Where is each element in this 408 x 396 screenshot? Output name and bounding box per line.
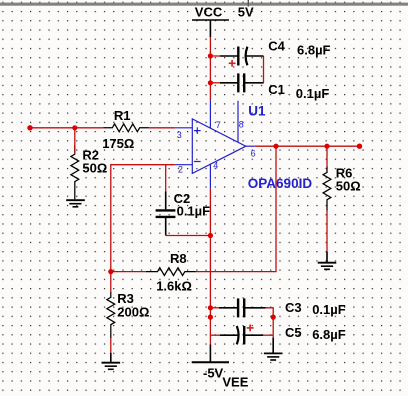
svg-text:0.1µF: 0.1µF bbox=[312, 302, 346, 317]
svg-text:1.6kΩ: 1.6kΩ bbox=[156, 278, 192, 293]
capacitor C4 (polarized 6.8uF) bbox=[220, 47, 264, 66]
svg-text:5V: 5V bbox=[238, 4, 254, 19]
svg-text:200Ω: 200Ω bbox=[117, 305, 149, 320]
lead ground stub below C3/C5 node bbox=[272, 338, 274, 354]
junction C2/pin4 bbox=[208, 233, 213, 238]
wire C4 left lead (red part) bbox=[210, 55, 220, 57]
svg-text:6: 6 bbox=[251, 149, 256, 159]
wire C3 left red bbox=[210, 307, 219, 309]
junction pin4 wire joint bbox=[208, 315, 213, 320]
svg-text:50Ω: 50Ω bbox=[336, 179, 361, 194]
top window edge bar bbox=[0, 3, 408, 6]
junction input terminal bbox=[27, 125, 32, 130]
wire C2 top connection bbox=[165, 165, 167, 192]
wire pin2 to left and down to feedback node bbox=[111, 165, 175, 292]
wire junction down to R2 bbox=[74, 128, 76, 155]
svg-text:8: 8 bbox=[239, 120, 244, 130]
polarity + of C4 bbox=[229, 60, 236, 67]
svg-text:175Ω: 175Ω bbox=[102, 136, 134, 151]
capacitor C3 (0.1uF) bbox=[219, 298, 266, 317]
svg-text:R3: R3 bbox=[117, 291, 134, 306]
ground below R3 bbox=[102, 363, 121, 370]
wire R6 bottom red bbox=[326, 211, 328, 252]
lead R6 ground stub bbox=[326, 252, 328, 263]
svg-text:6.8µF: 6.8µF bbox=[297, 42, 331, 57]
wire R3 bottom bbox=[110, 338, 112, 353]
junction output/R6 bbox=[324, 144, 329, 149]
svg-text:OPA690ID: OPA690ID bbox=[248, 176, 313, 191]
top tick mark bbox=[248, 0, 249, 7]
svg-text:R1: R1 bbox=[114, 108, 131, 123]
ground below C3/C5 bbox=[264, 353, 283, 360]
svg-text:6.8µF: 6.8µF bbox=[312, 327, 346, 342]
resistor R2 50ohm bbox=[71, 146, 79, 199]
op-amp U1 triangle bbox=[175, 100, 255, 188]
svg-text:0.1µF: 0.1µF bbox=[296, 86, 330, 101]
svg-text:7: 7 bbox=[216, 120, 221, 130]
wire pin4 down to VEE bbox=[209, 189, 211, 345]
wire feedback vertical from output bbox=[196, 146, 276, 271]
svg-text:50Ω: 50Ω bbox=[82, 160, 107, 175]
wire input terminal to R1 bbox=[30, 127, 103, 129]
wire C3 right red corner bbox=[266, 308, 274, 338]
svg-text:C4: C4 bbox=[268, 38, 285, 53]
polarity + of C5 bbox=[247, 325, 254, 332]
svg-text:R8: R8 bbox=[170, 251, 187, 266]
resistor R1 175ohm bbox=[103, 124, 149, 132]
svg-text:C3: C3 bbox=[285, 300, 302, 315]
svg-text:-5V: -5V bbox=[203, 365, 224, 380]
wire R2 red top segment bbox=[74, 146, 76, 154]
resistor R3 200ohm bbox=[107, 292, 115, 338]
node VEE power symbol bbox=[192, 361, 229, 363]
svg-text:3: 3 bbox=[177, 130, 182, 140]
ground below R6 bbox=[318, 263, 337, 270]
resistor R6 50ohm bbox=[323, 166, 331, 210]
svg-text:4: 4 bbox=[213, 160, 218, 170]
wire R8 left to node bbox=[111, 271, 146, 273]
svg-text:2: 2 bbox=[178, 165, 183, 175]
capacitor C1 (0.1uF) bbox=[220, 73, 264, 92]
wire C1 left lead (red part) bbox=[210, 82, 220, 84]
svg-text:C5: C5 bbox=[285, 325, 302, 340]
wire C5 left red bbox=[210, 334, 220, 336]
junction VCC/C4 bbox=[208, 53, 213, 58]
node VCC power symbol bbox=[192, 20, 229, 37]
wire R1 to op-amp pin3 bbox=[149, 127, 175, 129]
wire C5 right red bbox=[263, 334, 273, 336]
svg-text:VEE: VEE bbox=[222, 374, 248, 389]
wire R6 top red bbox=[326, 146, 328, 166]
svg-text:0.1µF: 0.1µF bbox=[177, 204, 211, 219]
wire VCC stem to C4/C1 junctions and pin7 bbox=[209, 37, 211, 100]
lead pin4 black bottom to VEE bar bbox=[209, 345, 211, 362]
ground below R2 bbox=[66, 200, 85, 207]
junction R8/R3 node bbox=[108, 269, 113, 274]
junction pin4/C3 bbox=[208, 305, 213, 310]
junction VCC/C1 bbox=[208, 80, 213, 85]
capacitor C2 (0.1uF) bbox=[156, 191, 176, 235]
resistor R8 1.6kohm bbox=[146, 268, 196, 276]
wire C2 bottom to pin4 line bbox=[166, 235, 211, 237]
junction output terminal bbox=[357, 144, 362, 149]
wire C4-C1 right side vertical bbox=[263, 56, 265, 83]
capacitor C5 (6.8uF polarized) bbox=[220, 326, 263, 344]
junction R1/R2 node bbox=[72, 125, 77, 130]
svg-text:C1: C1 bbox=[268, 82, 285, 97]
junction output/feedback bbox=[273, 144, 278, 149]
svg-text:VCC: VCC bbox=[195, 4, 223, 19]
junction C3/C5 right bbox=[271, 315, 276, 320]
lead R3 ground stub bbox=[110, 353, 112, 363]
svg-text:U1: U1 bbox=[248, 104, 266, 119]
wire output bbox=[255, 145, 360, 147]
